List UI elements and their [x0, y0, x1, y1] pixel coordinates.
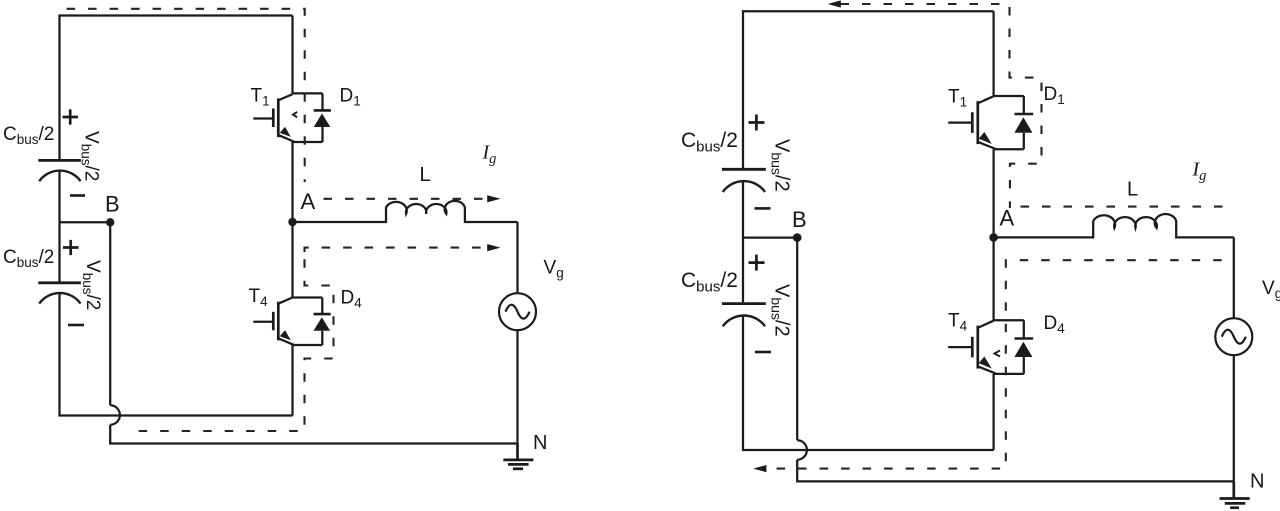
svg-text:Vbus/2: Vbus/2	[769, 284, 793, 337]
wire: top rail and left rail upper segment (right circuit)	[743, 11, 994, 168]
svg-text:A: A	[1000, 206, 1015, 231]
wire hop over negative rail (B line)	[110, 405, 120, 424]
wire hop over negative rail (right B line)	[797, 440, 807, 459]
svg-text:T1: T1	[948, 87, 967, 110]
svg-text:D1: D1	[1044, 84, 1065, 107]
svg-text:L: L	[1127, 179, 1138, 201]
dashed path: lower loop through T4 (right circuit)	[767, 260, 1222, 468]
wire: VgR to N junction	[1233, 355, 1235, 481]
node B dot (right circuit)	[793, 233, 802, 242]
wire: left rail lower segment and negative rail	[60, 293, 293, 415]
wire: Vg to N junction	[516, 330, 518, 443]
svg-text:Ig: Ig	[1192, 159, 1207, 185]
svg-text:L: L	[420, 164, 431, 186]
svg-text:D4: D4	[1044, 313, 1066, 336]
transistor T4R (IGBT)	[948, 321, 996, 374]
svg-text:Vbus/2: Vbus/2	[80, 260, 103, 310]
node B dot	[106, 218, 114, 226]
minus sign of C1	[70, 194, 85, 197]
svg-text:Cbus/2: Cbus/2	[3, 124, 54, 147]
wire: T4 emitter down to negative rail	[291, 345, 293, 416]
svg-text:Vg: Vg	[544, 258, 564, 281]
node A dot	[288, 218, 296, 226]
transistor T1 (IGBT)	[253, 94, 294, 142]
current direction chevron in T4R	[994, 350, 1000, 356]
capacitor C2R Cbus/2 (bottom)	[722, 304, 766, 327]
dashed path: A level to grid (upper, right circuit)	[1021, 206, 1224, 208]
wire: left rail lower segment and negative rail (right circuit)	[743, 316, 994, 450]
svg-text:T4: T4	[249, 286, 269, 309]
wire: T1 collector from top rail	[291, 16, 293, 94]
plus sign of C2	[63, 240, 79, 255]
ground symbol right	[1220, 481, 1250, 507]
minus sign of C1R	[755, 207, 771, 210]
svg-text:T1: T1	[251, 86, 270, 109]
wire: T1 emitter down to node A and T4 collector	[291, 142, 293, 298]
plus sign of C1	[63, 109, 79, 124]
wire: B line from hop to N rail (right circuit)	[797, 460, 1234, 482]
diode D4R bracket wires	[994, 320, 1024, 374]
dashed path lower loop through D4	[305, 248, 489, 252]
wire: down to Vg source	[516, 222, 518, 293]
diode D4R	[1014, 339, 1033, 358]
AC source VgR circle	[1215, 318, 1252, 355]
wire: down to VgR source	[1233, 237, 1235, 318]
wire: B line down to hop	[109, 222, 111, 405]
arrowhead bottom dashed (right circuit, pointing left)	[753, 465, 766, 472]
svg-text:N: N	[533, 432, 547, 454]
svg-text:Vbus/2: Vbus/2	[769, 139, 793, 192]
svg-text:B: B	[792, 207, 807, 232]
wire: left rail between capacitors	[58, 171, 60, 282]
sine wave inside VgR	[1222, 330, 1246, 344]
arrowhead Ig lower (left circuit)	[487, 244, 500, 251]
ground symbol left	[503, 444, 533, 469]
wire: T1R collector from top rail	[992, 11, 994, 96]
wire: left rail between capacitors (right circuit)	[742, 181, 744, 302]
wire: B line down to hop (right circuit)	[796, 238, 798, 441]
dashed path top rail and down past T1	[67, 9, 305, 182]
current direction chevron in T1	[293, 112, 297, 117]
diode D4	[314, 314, 331, 331]
dashed current path: top loop through T1 (left)	[67, 9, 488, 431]
svg-text:Cbus/2: Cbus/2	[3, 247, 54, 270]
dashed current path loops (right circuit)	[767, 4, 1224, 469]
wire: top rail and left rail upper segment	[60, 16, 293, 160]
sine wave inside Vg	[506, 305, 530, 319]
diode D1 bracket wires	[293, 93, 323, 142]
svg-text:T4: T4	[948, 311, 968, 334]
capacitor C2 Cbus/2 (bottom left)	[38, 283, 81, 304]
AC source Vg circle	[499, 293, 536, 330]
wire and inductor L: A to Vg branch	[293, 201, 518, 222]
wire and inductor LR: A to Vg branch (right circuit)	[994, 214, 1234, 237]
transistor T4 (IGBT)	[253, 298, 294, 346]
wire: T1R emitter down to node A and T4R collector	[992, 149, 994, 320]
diode D4 bracket wires	[293, 298, 323, 346]
capacitor C1R Cbus/2 (top)	[722, 169, 766, 192]
diode D1	[314, 110, 331, 127]
wire: B line from hop to N rail	[110, 425, 517, 444]
minus sign of C2R	[755, 351, 771, 354]
wire: T4R emitter down to negative rail	[992, 374, 994, 450]
svg-text:B: B	[105, 192, 120, 217]
dashed path A to L arrow line (upper)	[324, 198, 489, 200]
svg-text:Cbus/2: Cbus/2	[681, 129, 738, 156]
svg-text:Ig: Ig	[482, 142, 497, 168]
node A dot (right circuit)	[989, 233, 998, 242]
plus sign of C2R	[749, 255, 765, 271]
arrowhead Ig upper (left circuit)	[487, 195, 500, 202]
arrowhead top dashed (right circuit, pointing left)	[828, 0, 841, 7]
capacitor C1 Cbus/2 (top left)	[38, 160, 81, 181]
svg-text:D4: D4	[341, 288, 363, 311]
svg-text:Cbus/2: Cbus/2	[681, 269, 738, 296]
svg-text:N: N	[1250, 471, 1264, 493]
svg-text:D1: D1	[340, 86, 361, 109]
minus sign of C2	[68, 324, 84, 327]
plus sign of C1R	[749, 115, 765, 131]
svg-text:Vg: Vg	[1262, 278, 1280, 301]
diode D1R bracket wires	[994, 96, 1024, 149]
transistor T1R (IGBT)	[948, 96, 996, 149]
wire: B node branch horizontal	[60, 221, 111, 223]
svg-text:A: A	[301, 189, 316, 214]
svg-text:Vbus/2: Vbus/2	[79, 131, 102, 181]
wire: B node branch horizontal (right circuit)	[743, 236, 797, 238]
dashed path: top rail through D1 loop	[841, 4, 1042, 208]
diode D1R	[1014, 114, 1033, 133]
